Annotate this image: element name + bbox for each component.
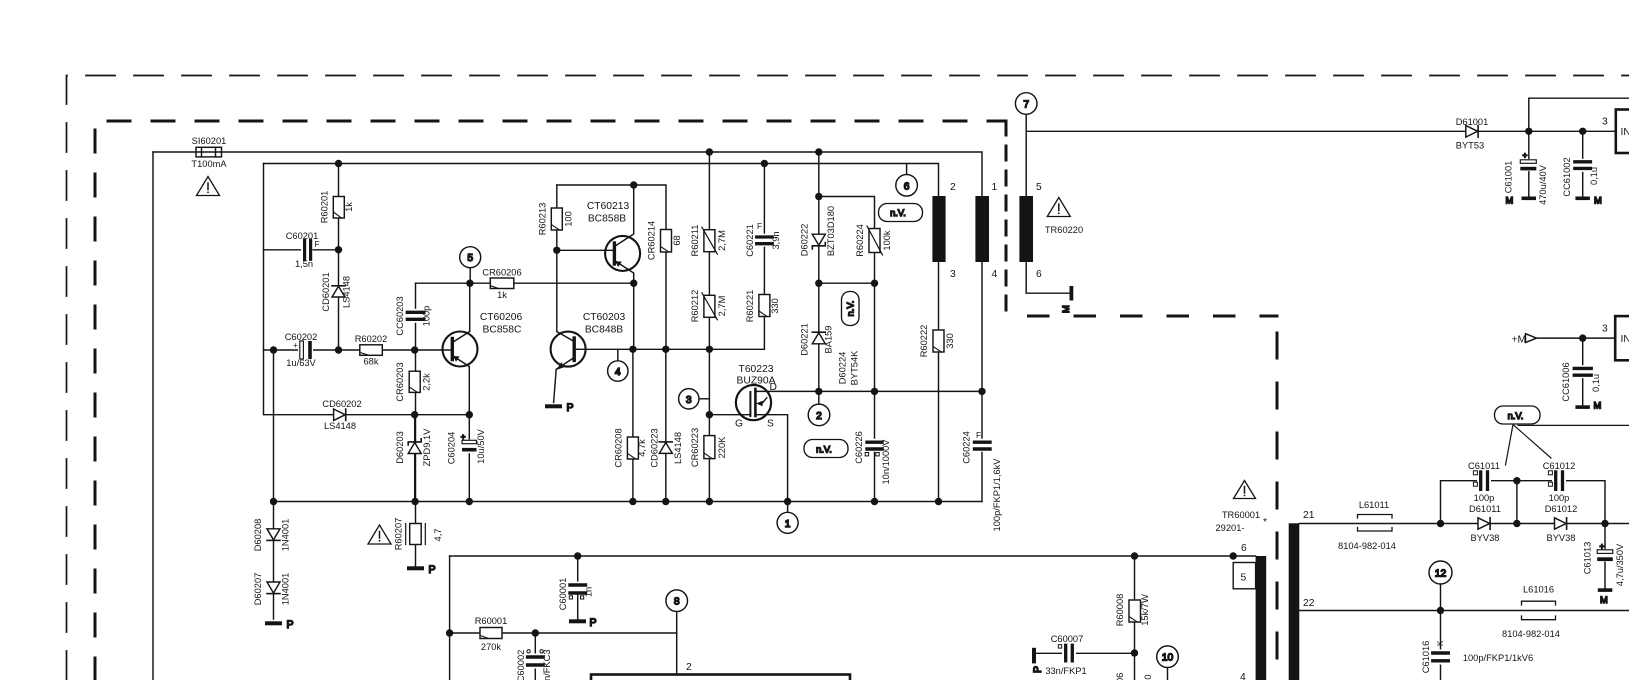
diode CD60201 LS4148 bbox=[332, 286, 345, 297]
resistor R60213 100 bbox=[551, 208, 562, 230]
ground P (CT60203 emitter) bbox=[545, 402, 574, 414]
svg-text:R60212: R60212 bbox=[690, 290, 700, 323]
connector node 10 bbox=[1157, 646, 1179, 668]
ground P (R60207) bbox=[407, 564, 436, 576]
svg-text:D61011: D61011 bbox=[1469, 504, 1501, 514]
svg-text:CC60006: CC60006 bbox=[1115, 673, 1125, 680]
zener diode D60203 ZPD9,1V bbox=[408, 439, 421, 454]
capacitor C61013 4,7u/350V electrolytic bbox=[1596, 542, 1614, 562]
wire CC61002 branch bbox=[1582, 131, 1584, 196]
resistor CR60208 4,7k bbox=[627, 437, 638, 459]
svg-text:100k: 100k bbox=[882, 230, 892, 251]
svg-text:4,7k: 4,7k bbox=[637, 439, 647, 457]
svg-text:68: 68 bbox=[672, 235, 682, 245]
capacitor C61011 100p bbox=[1473, 471, 1491, 491]
wire R60001 line to IC pin2 bbox=[450, 633, 677, 675]
svg-text:BYV38: BYV38 bbox=[1547, 533, 1576, 543]
svg-text:C61013: C61013 bbox=[1583, 542, 1593, 575]
svg-text:D61012: D61012 bbox=[1545, 504, 1578, 514]
wire C61011/C61012 bypass loop bbox=[1441, 481, 1606, 524]
wire connector 5 stub bbox=[469, 268, 471, 283]
capacitor C60224 100p/FKP1/1,6kV bbox=[974, 439, 992, 452]
resistor CR60214 68 bbox=[661, 230, 672, 253]
diode CD60223 LS4148 bbox=[659, 442, 672, 454]
wire CD60223 chain bbox=[665, 349, 667, 501]
svg-text:LS4148: LS4148 bbox=[673, 432, 683, 464]
resistor CR60223 220K bbox=[704, 436, 715, 459]
capacitor C61001 470u/40V electrolytic bbox=[1519, 151, 1537, 171]
svg-text:470u/40V: 470u/40V bbox=[1538, 164, 1548, 205]
svg-text:n/FKC3: n/FKC3 bbox=[542, 649, 552, 680]
transformer TR60001 secondary winding bbox=[1289, 523, 1300, 680]
wire MOSFET drain line bbox=[767, 390, 982, 392]
wire connector 10 stub bbox=[1167, 668, 1169, 680]
wire R60213 top to net A bbox=[556, 185, 558, 250]
svg-text:10: 10 bbox=[1162, 653, 1174, 664]
IC box (upper output) bbox=[1616, 110, 1629, 154]
svg-text:CD60201: CD60201 bbox=[321, 272, 331, 311]
ground M (C61013) bbox=[1598, 588, 1613, 605]
svg-text:SI60201: SI60201 bbox=[192, 136, 227, 146]
svg-text:C60202: C60202 bbox=[285, 332, 318, 342]
ground M (CC61006) bbox=[1575, 401, 1601, 411]
svg-text:F: F bbox=[976, 431, 981, 440]
wire CT60203 collector riser bbox=[556, 250, 558, 331]
svg-text:K: K bbox=[1436, 640, 1445, 646]
transistor CT60206 BC858C bbox=[442, 332, 478, 367]
svg-text:12: 12 bbox=[1435, 569, 1447, 580]
svg-text:8104-982-014: 8104-982-014 bbox=[1502, 629, 1560, 639]
wire snubber link D60221 to R60224 bbox=[819, 282, 875, 284]
wire control rail to pin2 of primary winding bbox=[264, 164, 939, 197]
transformer TR60220 winding 1-4 bbox=[975, 196, 989, 262]
svg-text:n.V.: n.V. bbox=[816, 445, 832, 455]
wire input bypass link over IC bbox=[1529, 98, 1629, 131]
svg-text:100: 100 bbox=[564, 211, 574, 227]
svg-text:100p: 100p bbox=[1549, 493, 1570, 503]
svg-text:n.V.: n.V. bbox=[846, 301, 856, 317]
capacitor C61016 100p/FKP1/1kV6 bbox=[1431, 650, 1450, 665]
ground M (CC61002) bbox=[1575, 196, 1601, 206]
wire pin3 of primary winding through R60222 bbox=[938, 262, 940, 502]
svg-text:L61016: L61016 bbox=[1523, 585, 1554, 595]
wire base/gate net horizontal bbox=[574, 348, 764, 350]
svg-text:R60222: R60222 bbox=[919, 325, 929, 358]
diode D60221 BA159 bbox=[812, 332, 825, 344]
svg-text:BYT53: BYT53 bbox=[1456, 141, 1484, 151]
svg-text:F: F bbox=[757, 222, 762, 231]
svg-text:68k: 68k bbox=[364, 357, 379, 367]
wire R60008 chain bbox=[1134, 556, 1136, 680]
svg-text:3: 3 bbox=[950, 269, 956, 280]
wire CR60208 chain bbox=[632, 349, 634, 501]
svg-text:R60080: R60080 bbox=[1143, 674, 1153, 680]
svg-text:0,1u: 0,1u bbox=[1591, 374, 1601, 392]
svg-text:R60001: R60001 bbox=[475, 616, 508, 626]
svg-text:CR60206: CR60206 bbox=[482, 268, 521, 278]
svg-text:6: 6 bbox=[904, 181, 910, 192]
wire bypass mid tap bbox=[1516, 481, 1518, 524]
wire connector 1 stub bbox=[787, 502, 789, 513]
connector node 2 bbox=[808, 404, 830, 426]
ground M (TR60220 pin 6) bbox=[1061, 286, 1073, 313]
svg-text:CC61006: CC61006 bbox=[1561, 362, 1571, 401]
svg-text:2: 2 bbox=[816, 411, 822, 422]
svg-text:CR60208: CR60208 bbox=[614, 428, 624, 467]
svg-text:1k: 1k bbox=[344, 202, 354, 212]
svg-text:100p: 100p bbox=[422, 306, 432, 327]
wire MOSFET source bbox=[766, 415, 788, 502]
transformer TR60220 winding 2-3 bbox=[932, 196, 945, 262]
inductor L61016 ferrite bead bbox=[1522, 601, 1556, 620]
svg-text:CD60223: CD60223 bbox=[650, 428, 660, 467]
warning triangle (TR60001) bbox=[1234, 481, 1256, 499]
MOSFET T60223 BUZ90A bbox=[736, 385, 771, 420]
svg-text:P: P bbox=[567, 402, 574, 414]
svg-text:BZT03D180: BZT03D180 bbox=[826, 206, 836, 256]
capacitor CC60203 100p bbox=[407, 309, 424, 323]
svg-text:1,5n: 1,5n bbox=[295, 259, 313, 269]
svg-text:1n: 1n bbox=[584, 587, 594, 597]
svg-text:P: P bbox=[287, 619, 294, 631]
svg-text:BA159: BA159 bbox=[824, 326, 834, 354]
wire connector 8 stub bbox=[676, 612, 678, 634]
resistor R60001 270k bbox=[480, 628, 502, 639]
svg-text:29201-: 29201- bbox=[1216, 523, 1245, 533]
svg-text:R60224: R60224 bbox=[855, 224, 865, 257]
IC control box (bottom) bbox=[591, 675, 850, 680]
svg-text:D60203: D60203 bbox=[395, 431, 405, 464]
wire C60202 junction down to primary ground rail bbox=[273, 350, 275, 502]
svg-text:M: M bbox=[1061, 305, 1071, 313]
svg-text:R60213: R60213 bbox=[537, 203, 547, 236]
wire C60001 branch to P ground bbox=[577, 556, 579, 620]
svg-text:D61001: D61001 bbox=[1456, 117, 1489, 127]
svg-text:1N4001: 1N4001 bbox=[281, 573, 291, 606]
svg-text:F: F bbox=[315, 240, 320, 249]
resistor R60221 330 bbox=[759, 295, 770, 317]
connector node 8 bbox=[666, 590, 688, 612]
bold dashed isolation boundary at transformer TR60001 bbox=[1276, 316, 1279, 680]
diode CD60202 LS4148 bbox=[334, 409, 346, 420]
wire R60224 branch bbox=[819, 197, 875, 284]
svg-text:+M: +M bbox=[1512, 335, 1527, 346]
wire C60007 line bbox=[1035, 652, 1135, 654]
svg-text:+: + bbox=[293, 341, 298, 350]
svg-text:CC60203: CC60203 bbox=[395, 296, 405, 335]
svg-text:270k: 270k bbox=[481, 642, 502, 652]
svg-text:M: M bbox=[1600, 595, 1608, 605]
wire R60207 branch to P ground bbox=[415, 502, 417, 568]
transformer TR60220 winding 5-6 bbox=[1019, 196, 1033, 262]
svg-text:D: D bbox=[770, 382, 777, 393]
wire C60221/R60221 chain bbox=[763, 164, 765, 350]
wire D60224 position / C60226 chain bbox=[874, 283, 876, 501]
nV stadium (C61011/C61012) bbox=[1495, 406, 1541, 424]
svg-text:C61016: C61016 bbox=[1421, 641, 1431, 674]
warning triangle (TR60220) bbox=[1047, 198, 1070, 217]
inductor L61011 ferrite bead bbox=[1358, 515, 1393, 532]
wire connector 6 stub bbox=[906, 164, 908, 175]
diode D61001 BYT53 bbox=[1466, 126, 1478, 138]
wire CT60213 collector bbox=[633, 185, 635, 232]
wire TR60220 pin6 to M ground bbox=[1026, 262, 1069, 293]
fuse SI60201 bbox=[196, 147, 222, 157]
fusible resistor R60224 100k bbox=[867, 226, 883, 255]
svg-text:IN: IN bbox=[1621, 334, 1629, 345]
svg-text:BYT54K: BYT54K bbox=[850, 350, 860, 385]
svg-text:7: 7 bbox=[1023, 100, 1029, 111]
svg-text:C60002: C60002 bbox=[516, 650, 526, 680]
svg-text:*: * bbox=[1263, 517, 1267, 528]
svg-text:330: 330 bbox=[945, 333, 955, 349]
capacitor CC61006 0,1u bbox=[1574, 365, 1593, 378]
svg-text:L61011: L61011 bbox=[1359, 500, 1389, 510]
svg-text:R60207: R60207 bbox=[394, 518, 404, 551]
diode D60208 1N4001 bbox=[267, 529, 280, 541]
wire gate net junction drop bbox=[633, 283, 635, 349]
svg-text:10n/1000V: 10n/1000V bbox=[881, 439, 891, 485]
wire mains line through fuse to pin1 of primary winding bbox=[153, 152, 982, 196]
fusible resistor R60207 4,7 bbox=[406, 524, 426, 545]
svg-text:3: 3 bbox=[686, 395, 692, 406]
resistor R60222 330 bbox=[933, 330, 944, 352]
connector node 5 bbox=[460, 247, 481, 268]
resistor R60202 68k bbox=[360, 345, 383, 356]
svg-text:1u/63V: 1u/63V bbox=[286, 358, 316, 368]
wire C60201 branch bbox=[264, 249, 339, 251]
svg-text:+: + bbox=[1523, 151, 1528, 160]
ground P (C60001) bbox=[569, 617, 597, 629]
transistor CT60213 BC858B bbox=[605, 232, 640, 276]
svg-text:2,7M: 2,7M bbox=[717, 296, 727, 317]
svg-text:P: P bbox=[590, 617, 597, 629]
svg-text:100p: 100p bbox=[1474, 493, 1495, 503]
svg-text:22: 22 bbox=[1303, 598, 1315, 609]
wire left mains vertical bbox=[152, 152, 154, 680]
svg-text:D60222: D60222 bbox=[799, 224, 809, 257]
svg-text:BYV38: BYV38 bbox=[1471, 533, 1500, 543]
svg-text:4,7u/350V: 4,7u/350V bbox=[1615, 543, 1625, 586]
svg-text:+: + bbox=[461, 433, 466, 442]
wire CT60206 emitter to CD60202 line bbox=[468, 367, 470, 415]
svg-text:R60221: R60221 bbox=[745, 290, 755, 323]
warning triangle (R60207) bbox=[368, 525, 391, 544]
svg-text:C60204: C60204 bbox=[447, 432, 457, 465]
capacitor C60002 33n/FKC3 bbox=[527, 650, 545, 669]
wire C61013 branch bbox=[1604, 524, 1606, 589]
capacitor C60204 10u/50V electrolytic bbox=[461, 433, 478, 454]
svg-text:P: P bbox=[1032, 666, 1044, 673]
connector node 7 bbox=[1015, 93, 1037, 115]
svg-text:CR60223: CR60223 bbox=[690, 428, 700, 467]
svg-text:BC858C: BC858C bbox=[483, 325, 522, 336]
svg-text:D60221: D60221 bbox=[799, 323, 809, 356]
svg-text:P: P bbox=[429, 564, 436, 576]
svg-text:G: G bbox=[735, 419, 743, 430]
capacitor CC61002 0,1u bbox=[1574, 159, 1592, 172]
IC box (lower output) bbox=[1615, 316, 1629, 360]
svg-text:ZPD9,1V: ZPD9,1V bbox=[422, 428, 432, 467]
wire C60002 branch bbox=[534, 633, 536, 680]
nV stadium (R60224) bbox=[879, 204, 923, 222]
svg-text:0,1u: 0,1u bbox=[1589, 167, 1599, 185]
wire R60201/CD60201 chain bbox=[338, 164, 340, 351]
wire node 5 line with CR60206 bbox=[416, 282, 634, 284]
wire C61001 branch bbox=[1528, 131, 1530, 196]
wire CT60213 emitter bbox=[633, 276, 635, 284]
svg-text:R60201: R60201 bbox=[320, 191, 330, 224]
diode D61011 BYV38 bbox=[1478, 518, 1490, 529]
svg-text:C60224: C60224 bbox=[962, 431, 972, 464]
svg-text:R60008: R60008 bbox=[1115, 594, 1125, 627]
svg-text:1: 1 bbox=[785, 519, 791, 530]
wire left edge of control block down to CD60202 branch bbox=[264, 164, 470, 415]
svg-text:5: 5 bbox=[1036, 182, 1042, 193]
capacitor C60007 33n/FKP1 bbox=[1058, 644, 1076, 662]
svg-text:220K: 220K bbox=[717, 436, 727, 459]
svg-text:2: 2 bbox=[950, 182, 956, 193]
svg-text:M: M bbox=[1506, 196, 1514, 206]
wire primary ground rail bbox=[274, 501, 983, 503]
fusible resistor R60212 2,7M bbox=[702, 293, 718, 320]
svg-text:2,2k: 2,2k bbox=[422, 373, 432, 391]
svg-text:8: 8 bbox=[674, 597, 680, 608]
svg-text:CR60214: CR60214 bbox=[647, 221, 657, 260]
ground M (C61001) bbox=[1506, 196, 1537, 206]
svg-text:BC858B: BC858B bbox=[588, 214, 626, 225]
resistor CR60206 1k bbox=[490, 278, 514, 289]
nV pointer lines bbox=[1506, 425, 1629, 466]
svg-text:n.V.: n.V. bbox=[1508, 411, 1524, 421]
nV stadium (D60224) vertical bbox=[842, 292, 860, 326]
fusible resistor R60211 2,7M bbox=[702, 227, 718, 254]
svg-text:C60226: C60226 bbox=[854, 431, 864, 464]
svg-text:C60221: C60221 bbox=[745, 224, 755, 257]
capacitor C61012 100p bbox=[1548, 471, 1566, 491]
svg-text:LS4148: LS4148 bbox=[324, 421, 356, 431]
svg-text:CT60213: CT60213 bbox=[587, 201, 630, 212]
svg-text:R60202: R60202 bbox=[355, 334, 388, 344]
svg-text:3: 3 bbox=[1602, 117, 1608, 128]
svg-text:TR60220: TR60220 bbox=[1045, 225, 1083, 235]
wire connector 3 stub bbox=[699, 398, 710, 400]
svg-text:T60223: T60223 bbox=[739, 364, 774, 375]
warning triangle (mains) bbox=[197, 177, 220, 196]
ground P (left diode chain) bbox=[265, 619, 294, 631]
svg-text:4: 4 bbox=[1240, 672, 1246, 680]
wire connector 7 stub bbox=[1025, 115, 1027, 132]
wire CR60223 chain and gate branch bbox=[709, 349, 750, 501]
wire CC60203 branch bbox=[415, 283, 417, 350]
capacitor C60226 10n/1000V bbox=[865, 439, 883, 456]
connector node 1 bbox=[777, 512, 798, 533]
input marker +M bbox=[1526, 334, 1537, 343]
wire TR60220 pin5 to D61001 and IC input bbox=[1026, 130, 1616, 132]
svg-text:IN: IN bbox=[1621, 127, 1629, 138]
svg-text:21: 21 bbox=[1303, 510, 1315, 521]
capacitor C60001 1n bbox=[569, 582, 587, 600]
capacitor C60221 3,9n bbox=[756, 234, 774, 247]
svg-text:8104-982-014: 8104-982-014 bbox=[1338, 541, 1396, 551]
svg-text:M: M bbox=[1594, 401, 1602, 411]
wire net A horizontal with CR60214 drop bbox=[557, 185, 666, 349]
wire R60211/R60212 chain bbox=[708, 152, 710, 349]
svg-text:330: 330 bbox=[770, 298, 780, 314]
svg-text:1k: 1k bbox=[497, 290, 507, 300]
svg-text:4: 4 bbox=[992, 269, 998, 280]
svg-text:C60001: C60001 bbox=[558, 578, 568, 611]
svg-text:C61011: C61011 bbox=[1468, 461, 1500, 471]
wire connector 2 stub bbox=[818, 391, 820, 404]
diode D60207 1N4001 bbox=[267, 582, 280, 594]
resistor R60008 15k/7W bbox=[1129, 600, 1141, 622]
svg-text:1: 1 bbox=[992, 182, 998, 193]
diode D61012 BYV38 bbox=[1555, 518, 1567, 529]
wire CT60213 base bbox=[557, 249, 615, 251]
resistor CR60203 2,2k bbox=[409, 371, 420, 392]
svg-text:C61012: C61012 bbox=[1543, 461, 1576, 471]
svg-text:LS4148: LS4148 bbox=[342, 276, 352, 308]
svg-text:6: 6 bbox=[1241, 543, 1247, 554]
transformer TR60001 primary winding bbox=[1256, 556, 1267, 680]
transformer TR60001 pin5 box bbox=[1233, 563, 1255, 589]
wire C61016 branch bbox=[1440, 611, 1442, 680]
svg-text:100p/FKP1/1kV6: 100p/FKP1/1kV6 bbox=[1463, 653, 1533, 663]
connector node 12 bbox=[1429, 561, 1452, 584]
svg-text:4: 4 bbox=[615, 367, 621, 378]
svg-text:+: + bbox=[1600, 542, 1605, 551]
svg-text:S: S bbox=[767, 419, 774, 430]
wire connector 12 stub bbox=[1440, 583, 1442, 610]
svg-text:100p/FKP1/1,6kV: 100p/FKP1/1,6kV bbox=[992, 458, 1002, 532]
svg-text:D60207: D60207 bbox=[253, 573, 263, 606]
resistor R60201 1k bbox=[333, 197, 344, 219]
wire D60203 / C60204 branches to ground rail bbox=[415, 415, 470, 502]
wire CR60203 branch bbox=[415, 350, 417, 502]
wire hot rail riser bbox=[449, 556, 451, 680]
svg-text:4,7: 4,7 bbox=[433, 529, 443, 542]
svg-text:6: 6 bbox=[1036, 269, 1042, 280]
connector node 4 bbox=[608, 361, 628, 381]
svg-text:CR60203: CR60203 bbox=[395, 362, 405, 401]
svg-text:2,7M: 2,7M bbox=[717, 230, 727, 251]
wire hot rail to pin6 of TR60001 bbox=[450, 555, 1256, 557]
connector node 6 bbox=[896, 175, 918, 197]
svg-text:5: 5 bbox=[1241, 573, 1247, 584]
svg-text:10u/50V: 10u/50V bbox=[476, 428, 486, 463]
inner bold dashed isolation border bbox=[95, 121, 1006, 680]
svg-text:CD60202: CD60202 bbox=[322, 399, 361, 409]
connector node 3 bbox=[679, 389, 699, 409]
svg-text:M: M bbox=[1594, 196, 1602, 206]
zener diode D60222 BZT03D180 bbox=[812, 234, 825, 249]
wire D60208/D60207 chain to P ground bbox=[273, 502, 275, 620]
wire connector 4 stub bbox=[617, 349, 619, 360]
svg-text:C60007: C60007 bbox=[1051, 634, 1084, 644]
svg-text:n.V.: n.V. bbox=[890, 208, 906, 218]
svg-text:33n/FKP1: 33n/FKP1 bbox=[1045, 666, 1086, 676]
wire +M input line bbox=[1537, 337, 1616, 339]
transistor CT60203 BC848B bbox=[551, 332, 586, 403]
wire D60222/D60221 chain bbox=[818, 152, 820, 391]
svg-text:1N4001: 1N4001 bbox=[281, 519, 291, 552]
svg-text:TR60001: TR60001 bbox=[1222, 510, 1260, 520]
svg-text:T100mA: T100mA bbox=[191, 159, 227, 169]
svg-text:3,9n: 3,9n bbox=[771, 231, 781, 249]
wire TR60220 pin5 drop bbox=[1025, 131, 1027, 196]
svg-text:BC848B: BC848B bbox=[585, 325, 623, 336]
